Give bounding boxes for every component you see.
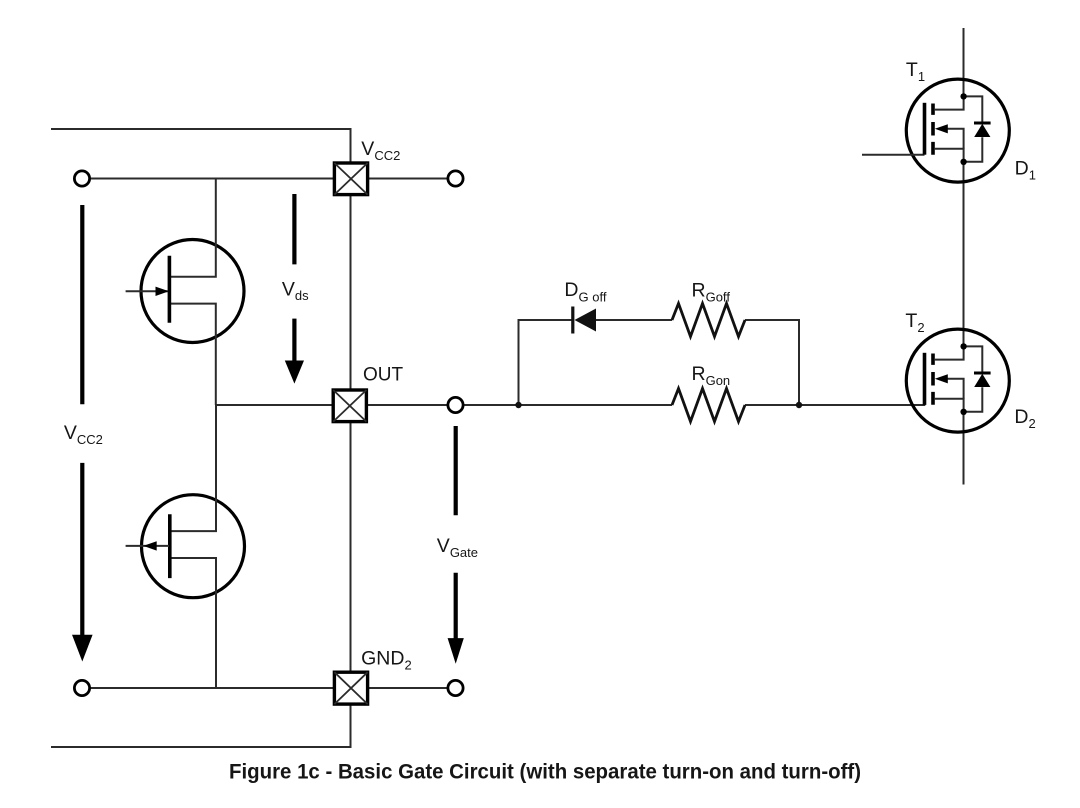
arrow V_CC2 left head (72, 635, 93, 662)
arrow V_Gate shaft upper (454, 426, 458, 515)
terminal circle VCC2 left (74, 171, 89, 186)
wire VCC2 pad to OUT pad vertical (350, 195, 352, 390)
wire T2 source down (963, 412, 965, 485)
wire GND row right (368, 687, 456, 689)
transistor Q1 upper driver FET (126, 179, 244, 406)
wire turn-off branch right vertical (745, 320, 799, 405)
arrow V_CC2 left shaft lower (80, 463, 84, 637)
transistor Q2 lower driver FET (126, 405, 245, 688)
pad OUT (333, 390, 366, 422)
junction node at turn-off branch right (796, 402, 802, 408)
terminal circle GND left (74, 680, 89, 695)
wire T1 drain from top (963, 28, 965, 96)
terminal circle OUT (448, 397, 463, 412)
wire OUT terminal to resistor R_Gon (456, 404, 673, 406)
arrow V_ds shaft upper (292, 194, 296, 264)
wire VCC2 row left (82, 178, 334, 180)
wire turn-off branch left vertical (519, 320, 572, 405)
wire bottom rail from GND2 pad (51, 704, 351, 747)
svg-text:Figure 1c - Basic Gate Circuit: Figure 1c - Basic Gate Circuit (with sep… (229, 760, 861, 784)
resistor R_Gon (672, 389, 745, 422)
diode D_G off triangle (575, 309, 597, 332)
svg-text:OUT: OUT (363, 365, 404, 386)
svg-text:GND2: GND2 (361, 648, 412, 673)
wire OUT pad to terminal (367, 404, 456, 406)
wire GND row left (82, 687, 334, 689)
diode D_G off cathode bar (571, 307, 574, 334)
resistor R_Goff (672, 304, 745, 337)
arrow V_CC2 left shaft upper (80, 205, 84, 404)
arrow V_ds shaft lower (292, 319, 296, 361)
wire OUT pad to GND2 pad vertical (350, 422, 352, 673)
pad VCC2 (334, 163, 367, 195)
wire R_Gon to T2 gate (745, 404, 925, 406)
junction node at turn-off branch left (515, 402, 521, 408)
wire diode to R_Goff (596, 319, 672, 321)
wire T1 source to T2 drain (963, 162, 965, 347)
terminal circle GND right (448, 680, 463, 695)
pad GND2 (334, 672, 367, 704)
terminal circle VCC2 right (448, 171, 463, 186)
transistor T1 power MOSFET (862, 79, 1009, 182)
arrow V_Gate shaft lower (454, 573, 458, 639)
arrow V_ds head (285, 361, 304, 384)
wire VCC2 row right (368, 178, 456, 180)
transistor T2 power MOSFET (906, 329, 1009, 432)
wire top rail from VCC2 pad (51, 129, 351, 163)
arrow V_Gate head (448, 638, 464, 664)
wire OUT row left of pad (216, 404, 333, 406)
